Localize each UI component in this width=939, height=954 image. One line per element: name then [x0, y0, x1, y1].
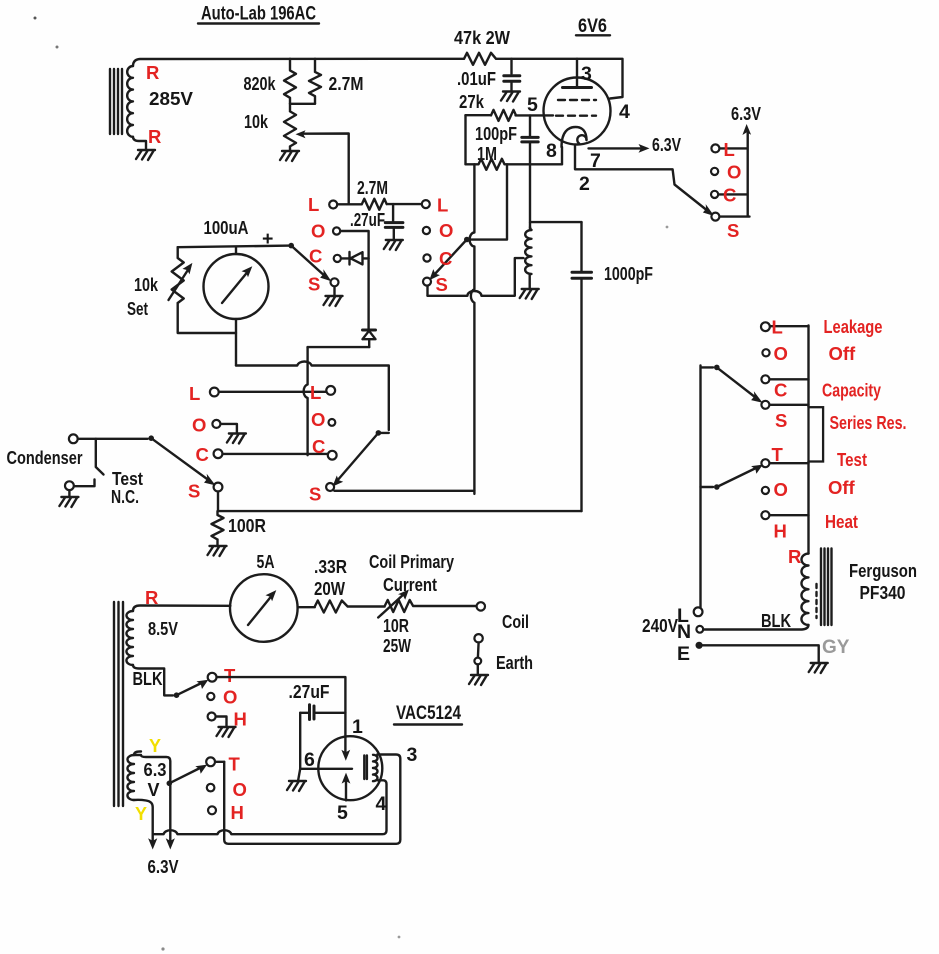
svg-text:5A: 5A	[257, 552, 275, 572]
svg-text:O: O	[192, 415, 206, 436]
svg-text:.01uF: .01uF	[457, 69, 496, 89]
svg-text:O: O	[223, 687, 237, 708]
svg-text:10R: 10R	[383, 616, 409, 636]
svg-text:100pF: 100pF	[475, 124, 517, 144]
svg-text:Capacity: Capacity	[822, 380, 882, 401]
svg-text:.27uF: .27uF	[289, 682, 330, 702]
svg-text:N: N	[677, 621, 691, 643]
svg-text:8.5V: 8.5V	[148, 619, 178, 639]
svg-text:R: R	[148, 126, 161, 147]
svg-text:Off: Off	[828, 477, 856, 498]
svg-text:240V: 240V	[642, 616, 678, 636]
svg-text:6: 6	[304, 749, 315, 771]
svg-text:1000pF: 1000pF	[604, 264, 653, 284]
svg-text:Auto-Lab 196AC: Auto-Lab 196AC	[201, 3, 316, 25]
svg-text:6.3V: 6.3V	[731, 104, 761, 124]
svg-text:820k: 820k	[244, 74, 277, 94]
svg-text:R: R	[788, 546, 801, 567]
svg-text:C: C	[723, 185, 736, 206]
svg-text:Series Res.: Series Res.	[830, 412, 907, 433]
svg-text:6.3: 6.3	[144, 760, 167, 780]
svg-text:3: 3	[407, 744, 418, 766]
svg-text:S: S	[309, 484, 321, 505]
svg-text:Leakage: Leakage	[824, 316, 883, 337]
svg-text:5: 5	[527, 94, 538, 116]
svg-text:S: S	[436, 274, 448, 295]
svg-text:L: L	[189, 383, 200, 404]
svg-text:C: C	[196, 444, 209, 465]
svg-text:S: S	[727, 220, 739, 241]
svg-text:6.3V: 6.3V	[148, 857, 179, 877]
svg-text:1: 1	[352, 716, 363, 738]
svg-text:Off: Off	[829, 343, 857, 364]
svg-text:O: O	[774, 479, 788, 500]
svg-text:Y: Y	[135, 804, 147, 824]
svg-text:T: T	[224, 665, 236, 686]
svg-text:27k: 27k	[459, 92, 485, 112]
svg-text:T: T	[229, 754, 241, 775]
svg-text:V: V	[148, 780, 160, 800]
svg-text:L: L	[310, 382, 321, 403]
svg-text:47k 2W: 47k 2W	[454, 28, 510, 48]
svg-text:25W: 25W	[383, 636, 411, 656]
svg-text:S: S	[188, 481, 200, 502]
svg-text:PF340: PF340	[860, 583, 906, 603]
svg-text:3: 3	[581, 63, 592, 85]
svg-text:Set: Set	[127, 299, 148, 319]
svg-text:H: H	[774, 521, 787, 542]
svg-text:VAC5124: VAC5124	[396, 702, 461, 724]
svg-text:2: 2	[579, 173, 590, 195]
svg-text:2.7M: 2.7M	[357, 178, 388, 198]
svg-text:Y: Y	[149, 736, 161, 756]
svg-text:O: O	[439, 220, 453, 241]
svg-text:R: R	[145, 587, 158, 608]
svg-text:4: 4	[376, 793, 387, 815]
svg-text:H: H	[231, 802, 244, 823]
svg-text:BLK: BLK	[761, 611, 791, 631]
svg-text:Ferguson: Ferguson	[849, 561, 917, 581]
svg-text:10k: 10k	[134, 275, 159, 295]
svg-text:E: E	[677, 643, 690, 665]
svg-text:8: 8	[546, 140, 557, 162]
svg-text:L: L	[724, 139, 735, 160]
svg-text:C: C	[774, 380, 787, 401]
svg-text:O: O	[727, 162, 741, 183]
svg-text:Test: Test	[837, 449, 867, 470]
svg-text:O: O	[311, 409, 325, 430]
svg-text:R: R	[146, 62, 159, 83]
svg-text:O: O	[233, 779, 247, 800]
svg-text:O: O	[774, 343, 788, 364]
svg-text:Test: Test	[112, 469, 143, 489]
svg-text:100uA: 100uA	[204, 218, 249, 238]
svg-text:.33R: .33R	[314, 557, 347, 577]
svg-text:L: L	[772, 317, 783, 338]
svg-text:N.C.: N.C.	[111, 487, 139, 507]
svg-text:Heat: Heat	[825, 511, 858, 532]
svg-text:2.7M: 2.7M	[329, 74, 364, 94]
svg-text:C: C	[312, 436, 325, 457]
svg-text:6V6: 6V6	[578, 15, 607, 37]
svg-text:O: O	[311, 221, 325, 242]
svg-text:20W: 20W	[314, 579, 345, 599]
svg-text:285V: 285V	[149, 89, 193, 109]
svg-text:C: C	[439, 248, 452, 269]
svg-text:L: L	[437, 195, 448, 216]
svg-text:.27uF: .27uF	[350, 210, 385, 230]
svg-text:L: L	[308, 194, 319, 215]
svg-text:S: S	[308, 274, 320, 295]
svg-text:100R: 100R	[228, 516, 266, 536]
svg-text:6.3V: 6.3V	[652, 135, 681, 155]
svg-text:5: 5	[337, 802, 348, 824]
svg-text:GY: GY	[822, 637, 850, 658]
svg-text:Condenser: Condenser	[7, 448, 83, 468]
svg-text:S: S	[775, 410, 787, 431]
svg-text:10k: 10k	[244, 112, 269, 132]
svg-text:T: T	[772, 444, 784, 465]
svg-text:Current: Current	[383, 575, 437, 595]
svg-text:Earth: Earth	[496, 653, 533, 673]
svg-text:Coil: Coil	[502, 612, 529, 632]
svg-text:BLK: BLK	[133, 669, 163, 689]
svg-text:4: 4	[619, 101, 630, 123]
svg-text:Coil Primary: Coil Primary	[369, 552, 454, 572]
